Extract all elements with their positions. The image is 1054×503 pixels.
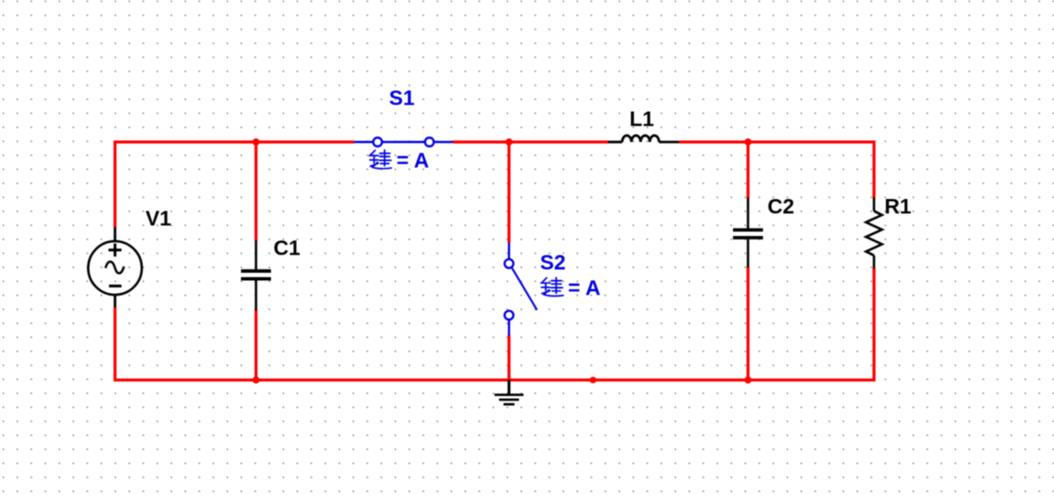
label S1 key glyph "jian" <box>369 150 391 168</box>
S1 bar <box>382 141 425 143</box>
label S2 key glyph "jian" <box>541 278 563 296</box>
C1 top lead <box>255 241 257 270</box>
V1 top lead <box>114 227 117 242</box>
S2 bottom pole circle <box>505 311 514 320</box>
V1 bottom lead <box>114 295 117 308</box>
svg-text:L1: L1 <box>630 108 655 131</box>
L1 coils <box>622 135 659 142</box>
C2 top plate <box>733 228 763 231</box>
ground bar 2 <box>499 399 519 401</box>
L1 right lead <box>659 141 679 144</box>
S2 top lead <box>508 243 510 260</box>
svg-text:= A: = A <box>397 150 429 173</box>
wire C1 branch upper <box>255 142 258 241</box>
S1 right lead <box>434 141 453 143</box>
wire bottom horizontal <box>114 379 876 382</box>
svg-text:S2: S2 <box>540 252 566 275</box>
junction node top C2 <box>744 138 751 145</box>
junction node bottom C1 <box>252 376 259 383</box>
C2 bottom plate <box>733 236 763 239</box>
wire top-left horizontal <box>114 141 355 144</box>
wire left vertical lower <box>114 307 117 382</box>
wire right vertical lower <box>873 268 876 382</box>
C1 top plate <box>241 269 271 272</box>
junction node bottom mid <box>590 377 597 384</box>
R1 bottom lead <box>873 256 875 269</box>
S2 blade <box>512 268 537 311</box>
ground bar 3 <box>504 403 515 405</box>
S2 top pole circle <box>505 259 514 268</box>
wire top-right horizontal <box>679 141 876 144</box>
svg-text:R1: R1 <box>885 196 912 219</box>
V1 plus sign <box>109 244 122 257</box>
S2 bottom lead <box>508 320 510 336</box>
V1 sine wave <box>106 262 125 274</box>
R1 zigzag body <box>866 211 882 256</box>
svg-text:C2: C2 <box>768 196 795 219</box>
R1 top lead <box>873 198 875 212</box>
S1 left pole circle <box>373 138 382 147</box>
junction node top C1 <box>252 138 259 145</box>
C1 bottom lead <box>255 281 257 311</box>
V1 body circle <box>88 241 142 295</box>
L1 left lead <box>608 141 622 144</box>
svg-text:V1: V1 <box>146 208 172 231</box>
wire right vertical upper <box>873 141 876 199</box>
C2 top lead <box>747 198 749 229</box>
ground stem <box>508 380 511 394</box>
wire S2 branch lower <box>508 335 511 380</box>
wire C1 branch lower <box>255 310 258 380</box>
ground bar 1 <box>495 394 524 396</box>
wire left vertical upper <box>114 141 117 228</box>
junction node top S2 <box>505 138 512 145</box>
S1 left lead <box>354 141 373 143</box>
svg-text:= A: = A <box>568 277 600 300</box>
wire C2 branch lower <box>747 267 750 380</box>
svg-text:C1: C1 <box>274 237 301 260</box>
S1 right pole circle <box>425 138 434 147</box>
V1 minus sign <box>109 285 122 288</box>
svg-text:S1: S1 <box>389 87 415 110</box>
C2 bottom lead <box>747 239 749 267</box>
wire top-mid horizontal <box>453 141 608 144</box>
C1 bottom plate <box>241 277 271 280</box>
wire S2 branch upper <box>508 142 511 243</box>
wire C2 branch upper <box>747 142 750 198</box>
junction node bottom C2 <box>744 376 751 383</box>
